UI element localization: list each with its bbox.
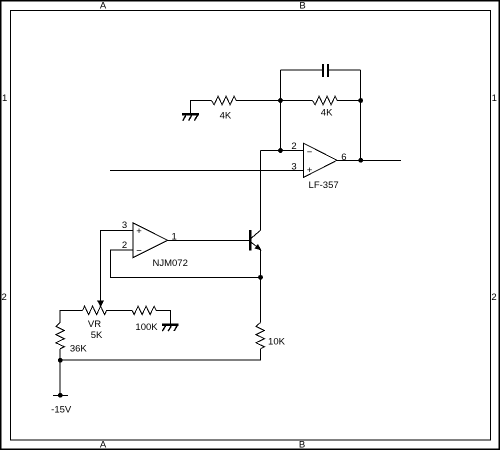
capacitor C1 plates	[323, 64, 328, 77]
ground G1 legs	[183, 116, 198, 121]
wire U2 pin3 input long line	[110, 170, 304, 172]
op-amp U1 NJM072 triangle	[133, 223, 168, 258]
wire VR left	[60, 310, 82, 322]
op-amp U2 LF-357 triangle	[304, 143, 338, 177]
svg-text:6: 6	[341, 152, 346, 163]
svg-text:1: 1	[2, 93, 7, 104]
junction node A dot	[278, 98, 283, 103]
resistor R2 4K zigzag	[313, 96, 338, 105]
svg-text:LF-357: LF-357	[309, 180, 339, 191]
wire U2 output pin6	[337, 159, 401, 161]
svg-text:-15V: -15V	[51, 405, 72, 416]
svg-text:3: 3	[291, 162, 296, 173]
wire feedback top right	[329, 69, 361, 71]
wire 36K bottom to -15V	[59, 349, 61, 396]
svg-text:4K: 4K	[220, 111, 232, 122]
svg-text:B: B	[299, 1, 305, 12]
svg-text:1: 1	[172, 232, 177, 243]
wire 10K bottom to rail	[60, 349, 260, 360]
svg-text:−: −	[136, 246, 142, 257]
svg-text:10K: 10K	[268, 337, 286, 348]
svg-text:2: 2	[122, 240, 127, 251]
terminal -15V bar	[53, 394, 68, 396]
svg-text:+: +	[307, 165, 313, 176]
ground G1 stem	[191, 101, 212, 114]
resistor R5 10K zigzag	[256, 323, 264, 349]
terminal -15V dot	[58, 393, 63, 398]
junction node B dot	[358, 98, 363, 103]
transistor Q1 base bar	[249, 230, 252, 251]
wire node B vertical	[360, 70, 362, 160]
svg-text:A: A	[100, 1, 107, 12]
svg-text:2: 2	[2, 292, 7, 303]
wire emitter down	[260, 250, 262, 323]
wire node A vertical	[280, 70, 282, 150]
svg-text:36K: 36K	[70, 344, 88, 355]
transistor Q1 emitter	[251, 242, 261, 250]
wire 100K to ground G2	[156, 310, 170, 323]
transistor Q1 collector	[251, 230, 261, 239]
wire U2 pin2 input	[260, 150, 303, 152]
potentiometer VR wiper arrowhead	[98, 301, 104, 306]
ground G2 legs	[162, 326, 177, 331]
svg-text:1: 1	[492, 93, 497, 104]
transistor Q1 emitter arrowhead	[255, 245, 260, 250]
resistor R4 100K zigzag	[132, 306, 156, 314]
junction pin2 node dot	[278, 148, 283, 153]
svg-text:5K: 5K	[91, 330, 103, 341]
wire U1 pin3 input	[101, 230, 134, 300]
svg-text:3: 3	[122, 220, 127, 231]
svg-text:4K: 4K	[321, 108, 333, 119]
junction 36K bottom dot	[58, 358, 63, 363]
svg-text:A: A	[100, 440, 107, 450]
svg-text:100K: 100K	[135, 322, 158, 333]
wire R1 to node A	[236, 100, 312, 102]
ground G2 bar	[162, 323, 179, 326]
svg-text:−: −	[307, 147, 313, 158]
ground G1 bar	[182, 113, 199, 116]
junction emitter node dot	[258, 275, 263, 280]
wire collector to pin2 node	[259, 151, 261, 231]
junction output node dot	[358, 158, 363, 163]
svg-text:VR: VR	[88, 319, 101, 330]
svg-text:+: +	[136, 226, 142, 237]
svg-text:2: 2	[291, 141, 296, 152]
svg-text:B: B	[299, 440, 305, 450]
resistor R1 4K zigzag	[212, 96, 237, 105]
wire U1 pin2 input feedback	[111, 250, 261, 277]
resistor R3 36K zigzag	[56, 323, 64, 349]
svg-text:2: 2	[491, 292, 496, 303]
potentiometer VR 5K zigzag	[83, 306, 107, 315]
wire U1 output pin1 to base	[168, 239, 249, 241]
svg-text:NJM072: NJM072	[153, 258, 188, 269]
wire R2 to node B	[337, 100, 361, 102]
wire feedback top left	[281, 69, 322, 71]
wire VR to 100K	[107, 309, 133, 311]
